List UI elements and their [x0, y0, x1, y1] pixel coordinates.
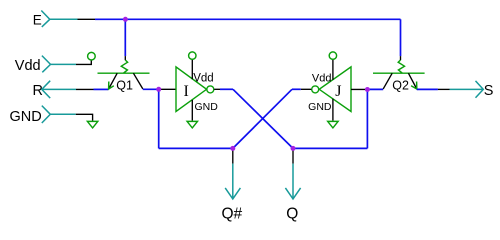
wire inverter J input stub (black) [351, 88, 367, 90]
wire net R to Q1 source (blue) [94, 88, 109, 90]
wire E port stub (teal) [50, 18, 78, 20]
wire R pin stub (black) [76, 88, 94, 90]
ground symbol at GND port [87, 121, 97, 128]
ground symbol at inverter I [187, 121, 197, 128]
wire net E drop to Q1 gate (blue) [124, 19, 126, 56]
wire Q1 drain to node A (blue) [143, 88, 159, 90]
transistor Q2 [373, 60, 425, 93]
svg-text:Q2: Q2 [392, 79, 409, 93]
wire net E horizontal (blue) [95, 18, 401, 20]
Vdd supply symbol at inverter I [189, 52, 196, 59]
svg-text:Q1: Q1 [116, 78, 133, 92]
Vdd supply symbol at inverter J [329, 52, 336, 59]
junction node C [230, 146, 235, 151]
wire GND port stub (teal) [50, 113, 76, 115]
wire node C output stub (black) [232, 148, 234, 163]
wire R port stub (teal) [42, 88, 76, 90]
wire node B to Q2 source (blue) [367, 88, 383, 90]
port Q output arrow [285, 164, 300, 223]
svg-text:GND: GND [10, 109, 42, 125]
svg-text:Q#: Q# [222, 205, 243, 222]
wire inverter I output stub (black) [214, 88, 220, 90]
port GND [10, 106, 51, 125]
wire GND pin stub (black) [76, 114, 93, 121]
wire Q1 gate pin stub (black) [124, 56, 126, 60]
wire E pin stub (black) [78, 18, 96, 20]
inverter U J [312, 67, 351, 112]
port E [33, 11, 50, 28]
wire J output horizontal (blue) [292, 88, 301, 90]
wire Q2 gate pin stub (black) [400, 56, 402, 60]
svg-text:Vdd: Vdd [193, 72, 213, 84]
junction node A [156, 87, 161, 92]
svg-text:Vdd: Vdd [15, 58, 41, 74]
svg-text:Q: Q [286, 205, 298, 222]
inverter I GND pin [191, 100, 193, 121]
wire node B drop to bottom rail (blue) [366, 89, 368, 148]
wire I output diagonal to node D (blue) [233, 89, 293, 148]
svg-text:S: S [484, 83, 494, 99]
wire Vdd port stub (teal) [51, 63, 77, 65]
transistor Q1 [98, 60, 150, 92]
svg-text:GND: GND [308, 101, 332, 113]
svg-text:Vdd: Vdd [312, 72, 332, 84]
svg-text:E: E [33, 12, 42, 27]
wire node A to inverter I input (black pin) [159, 88, 176, 90]
inverter U I [176, 67, 214, 112]
port Q# output arrow [222, 164, 243, 223]
wire net E drop to Q2 gate (blue) [400, 19, 402, 56]
wire Vdd pin stub (black) [76, 60, 91, 65]
junction node D [291, 146, 296, 151]
wire node A drop to bottom rail (blue) [158, 89, 160, 148]
wire inverter J output stub (black) [301, 88, 312, 90]
port S [450, 81, 494, 99]
wire S pin stub (black) [438, 88, 450, 90]
wire I output horizontal (blue) [220, 88, 233, 90]
port R [33, 81, 51, 100]
junction node B [365, 87, 370, 92]
port Vdd [15, 56, 51, 74]
svg-text:J: J [335, 83, 341, 100]
wire bottom rail right (blue) [293, 147, 367, 149]
junction on net E [123, 17, 128, 22]
inverter J Vdd pin [332, 59, 334, 80]
Vdd supply symbol [88, 52, 96, 60]
inverter I Vdd pin [191, 59, 193, 79]
ground symbol at inverter J [328, 121, 338, 128]
wire node D output stub (black) [292, 148, 294, 163]
wire J output diagonal to node C (blue) [233, 89, 292, 148]
svg-text:R: R [33, 83, 43, 99]
wire bottom rail left (blue) [159, 147, 233, 149]
wire Q2 drain to S (blue) [417, 88, 438, 90]
inverter J GND pin [332, 99, 334, 121]
svg-text:I: I [184, 83, 189, 100]
svg-text:GND: GND [195, 101, 219, 113]
